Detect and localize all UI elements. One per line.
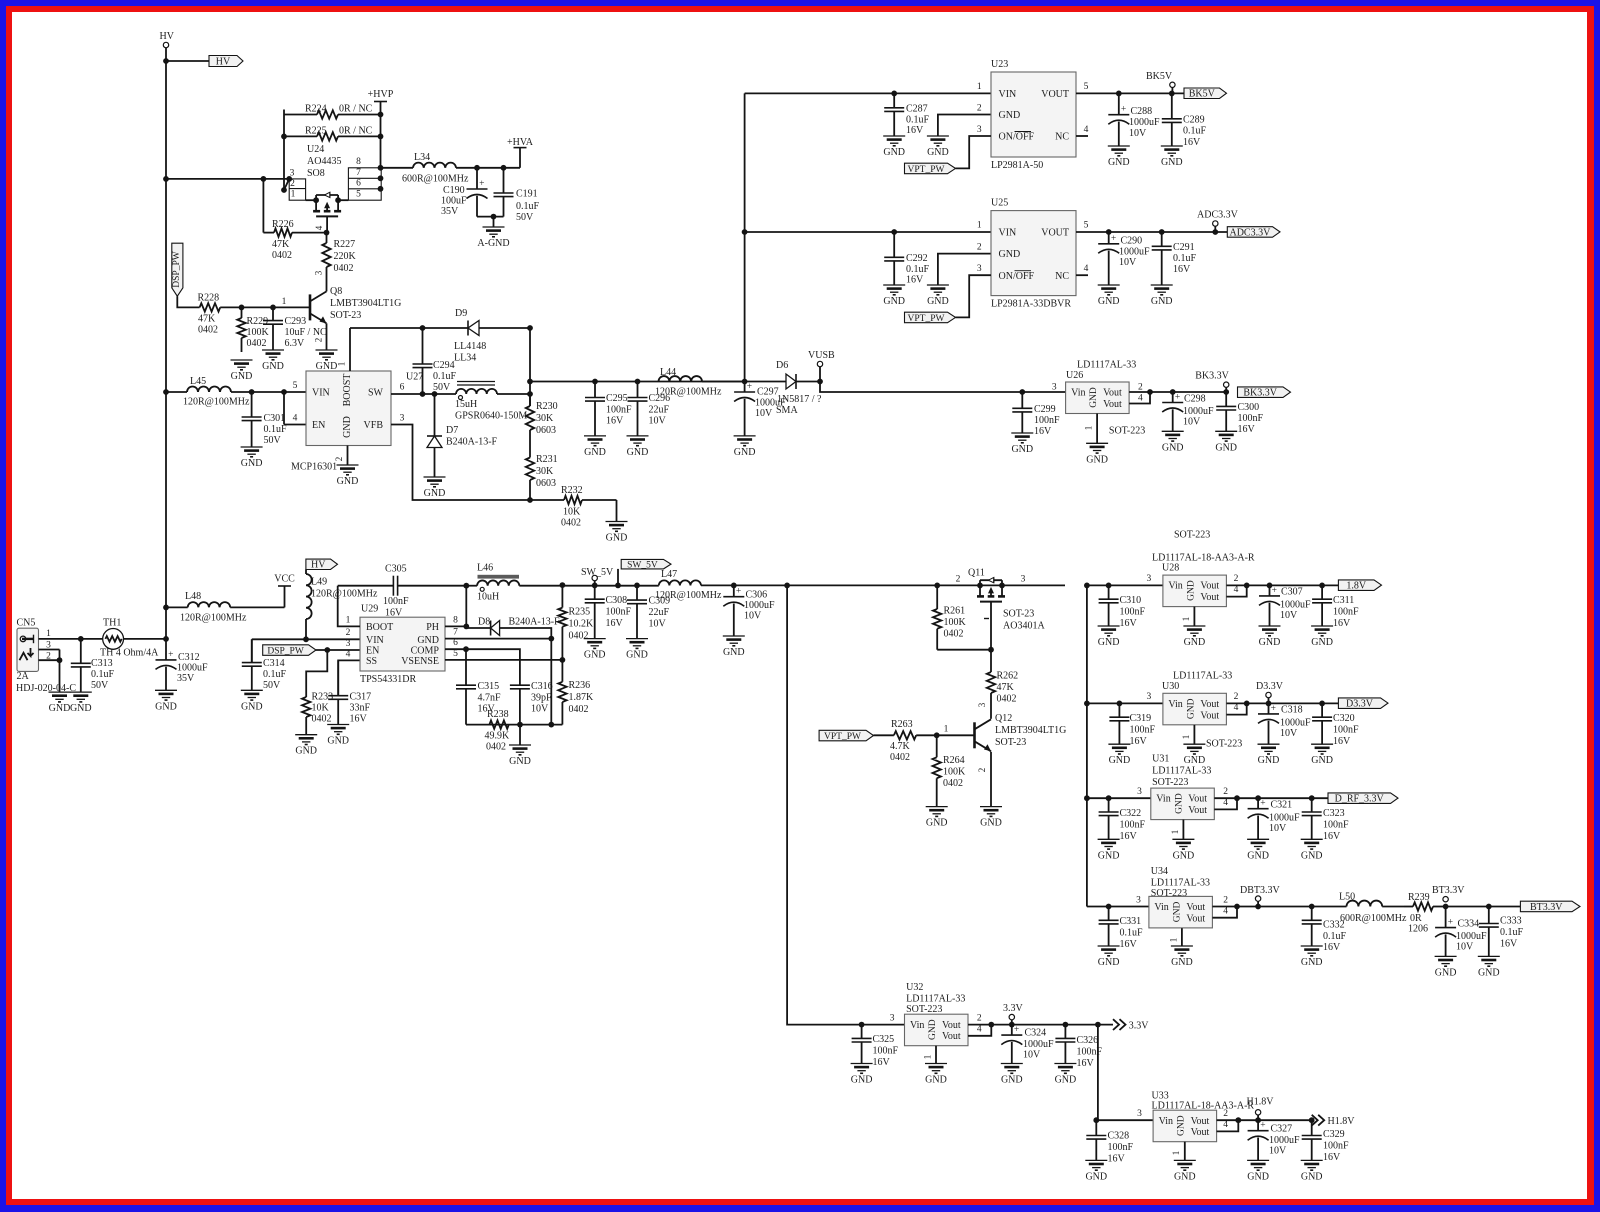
svg-text:LD1117AL-18-AA3-A-R: LD1117AL-18-AA3-A-R xyxy=(1152,1101,1255,1112)
svg-text:100nF: 100nF xyxy=(1323,1141,1349,1152)
diode D8 xyxy=(466,617,560,636)
svg-text:GND: GND xyxy=(1098,637,1120,648)
svg-text:C314: C314 xyxy=(263,658,285,669)
ground C322 xyxy=(1098,839,1120,861)
svg-text:2A: 2A xyxy=(17,671,30,682)
svg-text:GND: GND xyxy=(927,147,949,158)
svg-text:2: 2 xyxy=(1234,692,1239,702)
node BK3.3V xyxy=(1195,371,1229,395)
ground U26 pin1 xyxy=(1086,443,1108,465)
svg-text:R224: R224 xyxy=(305,104,327,115)
capacitor C287 xyxy=(884,93,929,136)
svg-text:1: 1 xyxy=(944,725,949,735)
svg-text:0402: 0402 xyxy=(334,263,354,274)
svg-text:47K: 47K xyxy=(272,239,290,250)
capacitor C301 xyxy=(242,392,287,447)
svg-text:C321: C321 xyxy=(1271,800,1293,811)
svg-text:120R@100MHz: 120R@100MHz xyxy=(655,590,722,601)
svg-text:16V: 16V xyxy=(1333,736,1351,747)
svg-text:DSP_PW: DSP_PW xyxy=(267,646,303,656)
svg-text:R235: R235 xyxy=(569,607,591,618)
svg-text:+: + xyxy=(1121,105,1126,115)
svg-text:6: 6 xyxy=(400,383,405,393)
ground C328 xyxy=(1085,1160,1107,1182)
svg-text:GND: GND xyxy=(1301,957,1323,968)
svg-text:D3.3V: D3.3V xyxy=(1346,699,1374,710)
svg-text:GND: GND xyxy=(509,756,531,767)
mosfet Q11 xyxy=(956,568,1046,632)
svg-text:C310: C310 xyxy=(1120,595,1142,606)
svg-text:1000uF: 1000uF xyxy=(744,600,775,611)
svg-text:10V: 10V xyxy=(1023,1049,1041,1060)
wire CN5 pins23 xyxy=(39,650,63,693)
resistor R262 xyxy=(987,650,1018,708)
svg-text:R225: R225 xyxy=(305,126,327,137)
wire U25 NC stub xyxy=(1076,264,1089,275)
wire C305 net xyxy=(463,583,469,589)
svg-text:0402: 0402 xyxy=(890,752,910,763)
svg-text:50V: 50V xyxy=(516,212,534,223)
svg-text:D7: D7 xyxy=(446,425,458,436)
svg-text:C305: C305 xyxy=(385,564,407,575)
svg-text:SW_5V: SW_5V xyxy=(627,561,658,571)
svg-text:2: 2 xyxy=(1138,383,1143,393)
svg-text:VPT_PW: VPT_PW xyxy=(824,732,861,742)
svg-text:2: 2 xyxy=(977,242,982,252)
mosfet U24 symbol xyxy=(313,192,348,232)
svg-text:+: + xyxy=(1260,1121,1265,1131)
capacitor C313 xyxy=(71,639,115,692)
svg-text:3: 3 xyxy=(346,639,351,649)
inductor L45 xyxy=(183,376,250,408)
capacitor C290 xyxy=(1098,232,1150,285)
svg-text:C334: C334 xyxy=(1458,918,1480,929)
svg-text:0.1uF: 0.1uF xyxy=(906,115,930,126)
svg-text:COMP: COMP xyxy=(411,646,440,657)
svg-text:D3.3V: D3.3V xyxy=(1256,681,1284,692)
svg-text:BT3.3V: BT3.3V xyxy=(1432,885,1465,896)
wire L47 out xyxy=(701,583,1090,589)
svg-text:GND: GND xyxy=(1055,1075,1077,1086)
svg-text:GND: GND xyxy=(1174,1171,1196,1182)
svg-text:C324: C324 xyxy=(1025,1027,1047,1038)
svg-text:R263: R263 xyxy=(891,719,913,730)
svg-text:0603: 0603 xyxy=(536,425,556,436)
capacitor C291 xyxy=(1152,232,1197,285)
svg-text:Vout: Vout xyxy=(1188,805,1207,816)
svg-text:Q8: Q8 xyxy=(330,286,342,297)
svg-text:1N5817 / ?: 1N5817 / ? xyxy=(777,394,822,405)
svg-text:GND: GND xyxy=(262,361,284,372)
net flag D_RF_3.3V xyxy=(1328,793,1398,805)
svg-text:VPT_PW: VPT_PW xyxy=(908,314,945,324)
wire U26 gnd pin1 xyxy=(1084,414,1146,444)
net flag 1.8V xyxy=(1338,580,1381,592)
svg-text:R228: R228 xyxy=(198,292,220,303)
svg-text:C295: C295 xyxy=(606,393,628,404)
svg-text:100nF: 100nF xyxy=(1323,819,1349,830)
resistor R261 xyxy=(933,585,967,649)
power VCC xyxy=(274,574,295,608)
svg-text:D9: D9 xyxy=(455,308,467,319)
svg-text:16V: 16V xyxy=(606,618,624,629)
svg-text:1: 1 xyxy=(337,362,347,367)
svg-text:LP2981A-50: LP2981A-50 xyxy=(991,160,1043,171)
svg-text:C306: C306 xyxy=(746,590,768,601)
svg-text:0.1uF: 0.1uF xyxy=(1120,928,1144,939)
wire EN U27 xyxy=(284,392,306,425)
svg-text:100nF: 100nF xyxy=(606,405,632,416)
svg-text:GND: GND xyxy=(1247,850,1269,861)
svg-text:0.1uF: 0.1uF xyxy=(1500,927,1524,938)
svg-text:C333: C333 xyxy=(1500,915,1522,926)
svg-text:PH: PH xyxy=(426,622,439,633)
svg-text:SMA: SMA xyxy=(776,405,798,416)
svg-text:16V: 16V xyxy=(1034,426,1052,437)
inductor L47 xyxy=(655,569,722,601)
ground C313 xyxy=(70,692,92,714)
net flag BT3.3V xyxy=(1520,901,1580,913)
svg-text:100uF: 100uF xyxy=(441,196,467,207)
svg-text:C293: C293 xyxy=(285,316,307,327)
svg-text:LL34: LL34 xyxy=(454,353,476,364)
svg-text:10K: 10K xyxy=(563,507,581,518)
svg-text:GND: GND xyxy=(1109,755,1131,766)
svg-text:C290: C290 xyxy=(1121,235,1143,246)
svg-text:A-GND: A-GND xyxy=(477,238,509,249)
ground R232 xyxy=(606,522,628,544)
ground C291 xyxy=(1151,285,1173,307)
svg-text:C319: C319 xyxy=(1130,713,1152,724)
svg-text:10V: 10V xyxy=(1280,610,1298,621)
svg-text:2: 2 xyxy=(1223,1109,1228,1119)
net flag VPT_PW Q12 xyxy=(819,730,894,742)
svg-text:AO4435: AO4435 xyxy=(307,156,341,167)
capacitor C322 xyxy=(1099,798,1146,842)
svg-text:R236: R236 xyxy=(569,680,591,691)
svg-text:VCC: VCC xyxy=(274,574,295,585)
resistor R230 xyxy=(526,394,558,444)
capacitor C323 xyxy=(1302,798,1349,842)
node DBT3.3V xyxy=(1240,885,1281,907)
svg-text:1000uF: 1000uF xyxy=(1269,812,1300,823)
ground C331 xyxy=(1098,946,1120,968)
svg-text:EN: EN xyxy=(312,420,325,431)
svg-text:4: 4 xyxy=(1234,703,1239,713)
wire U33 out xyxy=(1217,1117,1315,1131)
wire U23 VIN net xyxy=(745,82,991,96)
svg-text:0.1uF: 0.1uF xyxy=(1173,253,1197,264)
svg-text:10V: 10V xyxy=(1269,823,1287,834)
ground U27 xyxy=(337,465,359,487)
ground U34 pin1 xyxy=(1171,946,1193,968)
resistor R229 xyxy=(237,307,269,352)
svg-text:LD1117AL-33: LD1117AL-33 xyxy=(1151,878,1210,889)
svg-text:VSENSE: VSENSE xyxy=(401,656,439,667)
wire U34 out xyxy=(1212,904,1346,918)
svg-text:GND: GND xyxy=(1177,1115,1187,1136)
capacitor C307 xyxy=(1259,585,1311,626)
svg-text:U31: U31 xyxy=(1152,754,1169,765)
svg-text:TPS54331DR: TPS54331DR xyxy=(360,674,416,685)
svg-text:16V: 16V xyxy=(1173,264,1191,275)
svg-text:4: 4 xyxy=(1084,125,1089,135)
svg-text:GND: GND xyxy=(1215,442,1237,453)
ground C306 xyxy=(723,636,745,658)
svg-text:GPSR0640-150M: GPSR0640-150M xyxy=(455,411,527,422)
capacitor C308 xyxy=(585,585,632,638)
wire U27 gnd pin2 xyxy=(334,446,348,466)
svg-text:VUSB: VUSB xyxy=(808,350,835,361)
svg-text:Vout: Vout xyxy=(1200,710,1219,721)
svg-text:SS: SS xyxy=(366,656,377,667)
svg-text:GND: GND xyxy=(584,650,606,661)
wire DSP_PW to R228 xyxy=(177,296,199,307)
svg-text:1000uF: 1000uF xyxy=(1023,1039,1054,1050)
svg-text:Vout: Vout xyxy=(1191,1127,1210,1138)
ic U23 LP2981A-50 xyxy=(991,59,1076,171)
inductor L46 xyxy=(477,563,519,603)
svg-text:4: 4 xyxy=(293,414,298,424)
svg-text:GND: GND xyxy=(1186,580,1196,601)
wire 5V output net xyxy=(530,379,747,385)
svg-text:16V: 16V xyxy=(906,275,924,286)
resistor R238 xyxy=(485,709,511,753)
svg-text:0402: 0402 xyxy=(272,250,292,261)
svg-text:GND: GND xyxy=(1011,444,1033,455)
svg-text:0402: 0402 xyxy=(198,325,218,336)
svg-text:L45: L45 xyxy=(190,376,206,387)
svg-text:GND: GND xyxy=(1478,967,1500,978)
svg-text:0.1uF: 0.1uF xyxy=(263,669,287,680)
svg-text:2: 2 xyxy=(1223,787,1228,797)
svg-text:SO8: SO8 xyxy=(307,168,325,179)
svg-text:0402: 0402 xyxy=(247,338,267,349)
svg-text:B240A-13-F: B240A-13-F xyxy=(509,617,561,628)
wire VFB net xyxy=(391,414,533,503)
svg-text:BOOST: BOOST xyxy=(342,374,353,407)
svg-text:10V: 10V xyxy=(744,611,762,622)
svg-text:HV: HV xyxy=(216,56,231,67)
wire U31 vin xyxy=(1087,787,1151,801)
svg-text:VOUT: VOUT xyxy=(1041,227,1069,238)
svg-text:C300: C300 xyxy=(1238,402,1260,413)
ground C319 xyxy=(1108,744,1130,766)
ground C298 xyxy=(1162,431,1184,453)
svg-text:Vout: Vout xyxy=(1200,592,1219,603)
ground C289 xyxy=(1161,146,1183,168)
svg-text:C190: C190 xyxy=(443,185,465,196)
svg-text:C288: C288 xyxy=(1131,106,1153,117)
svg-text:Vin: Vin xyxy=(1071,388,1085,399)
svg-text:1: 1 xyxy=(977,221,982,231)
svg-text:MCP16301: MCP16301 xyxy=(291,462,337,473)
svg-text:16V: 16V xyxy=(385,608,403,619)
svg-text:+: + xyxy=(1448,918,1453,928)
node SW_5V xyxy=(581,567,614,585)
wire U30 gnd pin1 xyxy=(1181,725,1243,750)
svg-text:5: 5 xyxy=(1084,221,1089,231)
svg-text:NC: NC xyxy=(1055,132,1069,143)
svg-text:8: 8 xyxy=(453,615,458,625)
svg-text:GND: GND xyxy=(734,447,756,458)
wire U26 out xyxy=(1129,389,1226,403)
svg-text:3: 3 xyxy=(314,270,324,275)
ground C309 xyxy=(626,639,648,661)
svg-text:GND: GND xyxy=(883,147,905,158)
svg-text:LMBT3904LT1G: LMBT3904LT1G xyxy=(330,298,401,309)
svg-text:C287: C287 xyxy=(906,104,928,115)
svg-text:VIN: VIN xyxy=(312,388,330,399)
svg-text:100K: 100K xyxy=(247,327,270,338)
wire BT3.3V net xyxy=(1446,904,1521,910)
svg-text:0.1uF: 0.1uF xyxy=(516,201,540,212)
wire U25 VIN net xyxy=(745,221,991,235)
ground C324 xyxy=(1001,1064,1023,1086)
wire +HVP bus xyxy=(378,102,384,168)
capacitor C318 xyxy=(1258,703,1311,744)
svg-text:C299: C299 xyxy=(1034,404,1056,415)
ground C332 xyxy=(1301,946,1323,968)
capacitor C311 xyxy=(1312,585,1359,629)
svg-text:1: 1 xyxy=(977,82,982,92)
wire VIN U27 xyxy=(231,381,306,395)
svg-text:GND: GND xyxy=(155,701,177,712)
svg-text:C291: C291 xyxy=(1173,242,1195,253)
ground C320 xyxy=(1311,744,1333,766)
svg-text:Vout: Vout xyxy=(1188,794,1207,805)
capacitor C324 xyxy=(1001,1025,1054,1064)
wire U30 out xyxy=(1226,701,1338,715)
svg-text:1000uF: 1000uF xyxy=(1456,931,1487,942)
svg-text:C298: C298 xyxy=(1184,393,1206,404)
trunk to U32 xyxy=(787,585,862,1024)
svg-text:1000uF: 1000uF xyxy=(1119,246,1150,257)
svg-text:Vout: Vout xyxy=(942,1031,961,1042)
wire L48 to VCC xyxy=(230,606,284,608)
ground C292 xyxy=(883,285,905,307)
svg-text:CN5: CN5 xyxy=(17,618,36,629)
svg-text:15uH: 15uH xyxy=(455,399,477,410)
ground R264 xyxy=(926,807,948,829)
svg-text:5: 5 xyxy=(1084,82,1089,92)
svg-text:GND: GND xyxy=(1173,850,1195,861)
svg-text:3: 3 xyxy=(977,125,982,135)
wire SW net xyxy=(391,383,456,397)
capacitor C296 xyxy=(628,382,671,436)
resistor R225 xyxy=(284,126,381,141)
node boost output vertical xyxy=(527,328,533,406)
svg-text:16V: 16V xyxy=(1183,137,1201,148)
ic U33 LD1117AL-18 xyxy=(1152,1090,1255,1141)
svg-text:4: 4 xyxy=(314,225,324,230)
ground C287 xyxy=(883,136,905,158)
svg-text:LD1117AL-33: LD1117AL-33 xyxy=(1077,360,1136,371)
svg-text:16V: 16V xyxy=(873,1057,891,1068)
ground R233 xyxy=(295,735,317,757)
wire SS net xyxy=(338,649,360,695)
svg-text:4: 4 xyxy=(977,1024,982,1034)
wire CN5 pin1 xyxy=(39,636,84,642)
svg-text:100nF: 100nF xyxy=(1238,413,1264,424)
svg-text:L50: L50 xyxy=(1339,892,1355,903)
svg-text:0603: 0603 xyxy=(536,478,556,489)
ground C295 xyxy=(584,436,606,458)
wire EN to R233 xyxy=(306,650,327,693)
inductor L44 xyxy=(655,367,722,398)
node HV top-left xyxy=(160,31,175,48)
wire L34 net xyxy=(381,167,413,169)
svg-text:120R@100MHz: 120R@100MHz xyxy=(180,613,247,624)
svg-text:3: 3 xyxy=(400,414,405,424)
svg-text:16V: 16V xyxy=(1120,939,1138,950)
ground R229 xyxy=(231,360,253,382)
capacitor C315 xyxy=(456,649,501,724)
svg-text:D_RF_3.3V: D_RF_3.3V xyxy=(1335,794,1385,805)
net flag SW_5V xyxy=(618,559,671,585)
svg-text:C328: C328 xyxy=(1108,1131,1130,1142)
svg-text:VPT_PW: VPT_PW xyxy=(908,165,945,175)
ground CN5 xyxy=(49,692,71,714)
ground Q8 xyxy=(316,350,338,372)
resistor R228 xyxy=(198,292,242,335)
capacitor C326 xyxy=(1055,1025,1102,1069)
svg-text:10V: 10V xyxy=(649,619,667,630)
wire L45 net xyxy=(166,391,187,393)
wire VSENSE pin5 xyxy=(445,649,565,663)
svg-text:D6: D6 xyxy=(776,360,788,371)
svg-text:4: 4 xyxy=(1084,264,1089,274)
svg-text:U26: U26 xyxy=(1066,370,1083,381)
svg-text:HV: HV xyxy=(311,560,326,571)
svg-text:B240A-13-F: B240A-13-F xyxy=(446,437,498,448)
capacitor C289 xyxy=(1162,93,1207,148)
svg-text:U34: U34 xyxy=(1151,866,1168,877)
wire Q12 emitter xyxy=(977,752,991,807)
node BK5V xyxy=(1146,71,1175,93)
resistor R227 xyxy=(322,233,356,279)
svg-text:GND: GND xyxy=(1162,442,1184,453)
svg-text:C329: C329 xyxy=(1323,1129,1345,1140)
svg-text:16V: 16V xyxy=(1077,1058,1095,1069)
svg-text:U32: U32 xyxy=(906,982,923,993)
svg-text:Vin: Vin xyxy=(1168,699,1182,710)
svg-text:2: 2 xyxy=(1223,895,1228,905)
svg-text:120R@100MHz: 120R@100MHz xyxy=(183,397,250,408)
capacitor C191 xyxy=(494,168,540,223)
capacitor C288 xyxy=(1108,93,1160,146)
svg-text:7: 7 xyxy=(453,628,458,638)
wire VUSB to U26 xyxy=(820,382,1066,395)
inductor L34 xyxy=(402,152,469,185)
svg-text:30K: 30K xyxy=(536,413,554,424)
wire R238 gnd xyxy=(519,725,521,745)
svg-text:GND: GND xyxy=(999,110,1021,121)
svg-text:1.87K: 1.87K xyxy=(569,692,595,703)
wire PH pin8 xyxy=(445,586,469,630)
svg-text:GND: GND xyxy=(1186,698,1196,719)
svg-text:BOOT: BOOT xyxy=(366,622,393,633)
wire BOOST pin1 xyxy=(337,328,351,371)
svg-text:16V: 16V xyxy=(1238,424,1256,435)
svg-text:0R: 0R xyxy=(1410,913,1422,924)
svg-text:1206: 1206 xyxy=(1408,924,1428,935)
resistor R224 xyxy=(284,104,381,119)
wire GND pin7 xyxy=(445,628,554,642)
ground C311 xyxy=(1311,626,1333,648)
diode D9 xyxy=(454,308,486,364)
svg-text:0.1uF: 0.1uF xyxy=(91,669,115,680)
